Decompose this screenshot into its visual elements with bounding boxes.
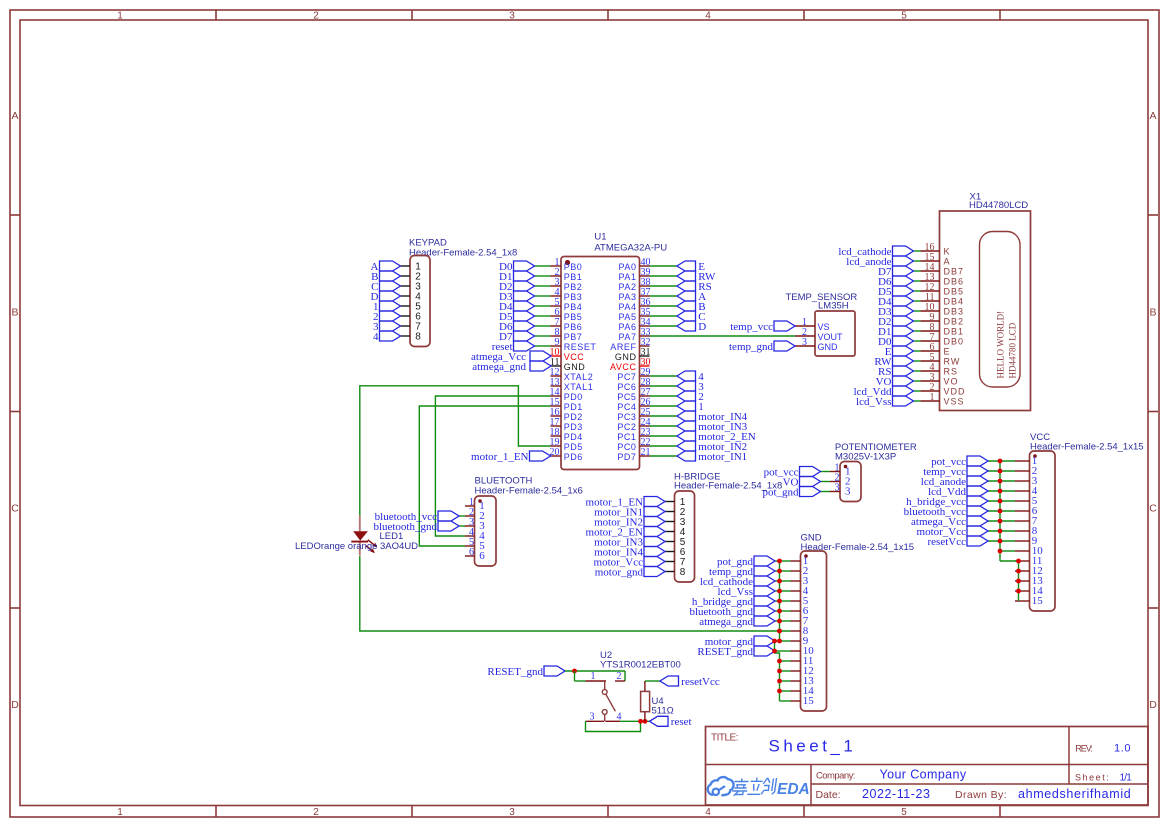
svg-text:PC2: PC2 <box>617 422 636 432</box>
svg-text:3: 3 <box>845 486 851 498</box>
svg-text:PC6: PC6 <box>617 382 636 392</box>
svg-text:PD4: PD4 <box>564 432 583 442</box>
svg-text:YTS1R0012EBT00: YTS1R0012EBT00 <box>600 660 681 671</box>
svg-text:DB1: DB1 <box>944 327 965 337</box>
svg-text:RW: RW <box>944 357 961 367</box>
svg-text:PD7: PD7 <box>617 452 636 462</box>
svg-text:PC4: PC4 <box>617 402 636 412</box>
svg-text:4: 4 <box>373 331 379 343</box>
svg-text:PD1: PD1 <box>564 402 583 412</box>
svg-text:Company:: Company: <box>816 771 855 782</box>
svg-text:lcd_Vss: lcd_Vss <box>856 396 891 408</box>
svg-text:DB3: DB3 <box>944 307 965 317</box>
svg-text:PB2: PB2 <box>564 282 583 292</box>
svg-text:Date:: Date: <box>816 789 841 801</box>
svg-text:1: 1 <box>591 671 596 682</box>
svg-text:motor_IN1: motor_IN1 <box>698 451 747 463</box>
svg-text:PC3: PC3 <box>617 412 636 422</box>
svg-text:E: E <box>944 347 951 357</box>
svg-text:2022-11-23: 2022-11-23 <box>862 787 931 801</box>
svg-text:ATMEGA32A-PU: ATMEGA32A-PU <box>594 243 667 254</box>
svg-text:DB0: DB0 <box>944 337 965 347</box>
svg-text:3: 3 <box>590 711 595 722</box>
svg-text:RS: RS <box>944 367 959 377</box>
svg-text:C: C <box>1149 503 1157 515</box>
svg-text:GND: GND <box>564 362 586 372</box>
svg-text:motor_gnd: motor_gnd <box>595 566 644 578</box>
svg-text:VSS: VSS <box>944 397 965 407</box>
svg-text:PD6: PD6 <box>564 452 583 462</box>
svg-text:A: A <box>944 257 951 267</box>
svg-text:EDA: EDA <box>777 781 810 798</box>
svg-text:DB6: DB6 <box>944 277 965 287</box>
svg-text:DB2: DB2 <box>944 317 965 327</box>
svg-text:GND: GND <box>615 352 637 362</box>
svg-text:PA6: PA6 <box>619 322 637 332</box>
svg-text:3: 3 <box>835 483 840 494</box>
svg-text:4: 4 <box>705 807 711 818</box>
svg-text:Your Company: Your Company <box>880 768 967 782</box>
svg-text:reset: reset <box>671 716 692 728</box>
svg-text:2: 2 <box>313 11 319 22</box>
svg-text:temp_gnd: temp_gnd <box>729 341 773 353</box>
svg-text:6: 6 <box>469 547 474 558</box>
svg-text:AVCC: AVCC <box>610 362 637 372</box>
svg-text:PA2: PA2 <box>619 282 637 292</box>
svg-text:511Ω: 511Ω <box>652 706 674 717</box>
svg-text:D: D <box>1149 699 1157 711</box>
svg-text:Header-Female-2.54_1x8: Header-Female-2.54_1x8 <box>409 247 517 258</box>
svg-text:15: 15 <box>803 695 815 707</box>
svg-text:PD3: PD3 <box>564 422 583 432</box>
svg-text:VS: VS <box>818 322 830 332</box>
svg-text:ahmedsherifhamid: ahmedsherifhamid <box>1018 787 1131 801</box>
svg-text:RESET_gnd: RESET_gnd <box>487 666 543 678</box>
svg-text:3: 3 <box>509 11 515 22</box>
svg-text:1: 1 <box>930 392 935 403</box>
svg-text:PC5: PC5 <box>617 392 636 402</box>
svg-text:2: 2 <box>313 807 319 818</box>
svg-text:RESET_gnd: RESET_gnd <box>697 646 753 658</box>
svg-text:PB0: PB0 <box>564 262 583 272</box>
svg-text:A: A <box>11 110 18 122</box>
svg-text:PA1: PA1 <box>619 272 637 282</box>
svg-text:LM35H: LM35H <box>818 301 849 312</box>
svg-text:motor_1_EN: motor_1_EN <box>471 451 528 463</box>
svg-text:PB7: PB7 <box>564 332 583 342</box>
svg-text:D: D <box>698 321 706 333</box>
svg-text:1.0: 1.0 <box>1114 743 1131 755</box>
svg-text:Sheet:: Sheet: <box>1075 772 1110 782</box>
svg-text:XTAL2: XTAL2 <box>564 372 594 382</box>
svg-text:C: C <box>11 503 19 515</box>
svg-text:LEDOrange orange 3AO4UD: LEDOrange orange 3AO4UD <box>295 541 418 552</box>
svg-text:4: 4 <box>705 11 711 22</box>
svg-text:atmega_gnd: atmega_gnd <box>472 361 526 373</box>
svg-text:HELLO WORLD!: HELLO WORLD! <box>996 311 1006 379</box>
svg-text:TITLE:: TITLE: <box>711 733 738 744</box>
svg-text:PB5: PB5 <box>564 312 583 322</box>
svg-text:Sheet_1: Sheet_1 <box>769 736 857 755</box>
svg-text:Header-Female-2.54_1x6: Header-Female-2.54_1x6 <box>475 486 583 497</box>
svg-text:8: 8 <box>415 331 421 342</box>
svg-text:DB4: DB4 <box>944 297 965 307</box>
svg-text:PD2: PD2 <box>564 412 583 422</box>
svg-text:VDD: VDD <box>944 387 966 397</box>
svg-text:PA3: PA3 <box>619 292 637 302</box>
svg-text:1/1: 1/1 <box>1120 772 1133 783</box>
svg-text:AREF: AREF <box>610 342 636 352</box>
svg-text:2: 2 <box>617 671 622 682</box>
svg-text:K: K <box>944 247 951 257</box>
svg-text:PC1: PC1 <box>617 432 636 442</box>
svg-text:resetVcc: resetVcc <box>681 676 720 688</box>
svg-text:1: 1 <box>117 11 123 22</box>
svg-text:HD44780 LCD: HD44780 LCD <box>1007 322 1017 378</box>
svg-text:REV:: REV: <box>1075 744 1092 754</box>
svg-text:XTAL1: XTAL1 <box>564 382 594 392</box>
svg-text:PC7: PC7 <box>617 372 636 382</box>
svg-text:PB4: PB4 <box>564 302 583 312</box>
svg-text:temp_vcc: temp_vcc <box>730 321 773 333</box>
svg-text:U1: U1 <box>594 232 606 243</box>
svg-text:5: 5 <box>901 11 907 22</box>
svg-text:bluetooth_gnd: bluetooth_gnd <box>373 521 437 533</box>
svg-text:HD44780LCD: HD44780LCD <box>969 200 1028 211</box>
svg-text:PB3: PB3 <box>564 292 583 302</box>
svg-text:PC0: PC0 <box>617 442 636 452</box>
svg-text:PA7: PA7 <box>619 332 637 342</box>
svg-text:PB1: PB1 <box>564 272 583 282</box>
svg-text:5: 5 <box>901 807 907 818</box>
svg-text:20: 20 <box>550 447 560 458</box>
svg-text:PA4: PA4 <box>619 302 637 312</box>
svg-text:B: B <box>11 307 18 319</box>
svg-text:DB7: DB7 <box>944 267 965 277</box>
svg-text:15: 15 <box>1032 595 1044 607</box>
svg-text:resetVcc: resetVcc <box>928 536 967 548</box>
svg-text:3: 3 <box>802 337 807 348</box>
svg-text:8: 8 <box>680 567 686 578</box>
svg-text:DB5: DB5 <box>944 287 965 297</box>
svg-text:PD5: PD5 <box>564 442 583 452</box>
svg-text:pot_gnd: pot_gnd <box>762 486 799 498</box>
svg-text:3: 3 <box>509 807 515 818</box>
svg-text:PA5: PA5 <box>619 312 637 322</box>
svg-text:VO: VO <box>944 377 959 387</box>
svg-text:PA0: PA0 <box>619 262 637 272</box>
svg-text:RESET: RESET <box>564 342 597 352</box>
svg-text:1: 1 <box>117 807 123 818</box>
svg-text:VCC: VCC <box>564 352 585 362</box>
svg-text:D: D <box>11 699 19 711</box>
svg-text:PB6: PB6 <box>564 322 583 332</box>
svg-text:21: 21 <box>641 447 651 458</box>
svg-text:atmega_gnd: atmega_gnd <box>699 616 753 628</box>
svg-text:6: 6 <box>479 550 485 562</box>
svg-text:B: B <box>1149 307 1156 319</box>
svg-text:Drawn By:: Drawn By: <box>955 789 1007 801</box>
svg-text:A: A <box>1149 110 1156 122</box>
svg-text:VOUT: VOUT <box>818 332 844 342</box>
svg-text:GND: GND <box>818 342 839 352</box>
svg-text:PD0: PD0 <box>564 392 583 402</box>
